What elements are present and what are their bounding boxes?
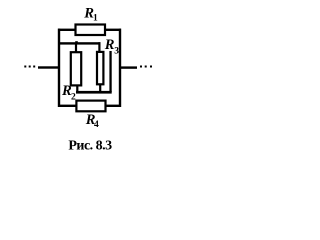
- wire: left rail: [58, 29, 60, 107]
- wire: bottom branch right segment: [107, 105, 122, 107]
- svg-text:3: 3: [114, 47, 119, 57]
- resistor R1: [76, 25, 106, 36]
- wire: top branch left segment: [58, 29, 75, 31]
- junction node on inner top wire: [75, 41, 78, 42]
- wire: inner top: [58, 42, 100, 44]
- resistor R3 (right vertical box): [97, 52, 103, 84]
- svg-text:1: 1: [93, 14, 98, 24]
- wire: left lead-in: [38, 66, 58, 68]
- wire: top branch right segment: [106, 29, 121, 31]
- resistor R4: [76, 101, 105, 112]
- left ellipsis dots: [24, 66, 26, 68]
- wire: right outer rail: [119, 29, 121, 107]
- svg-text:Рис. 8.3: Рис. 8.3: [68, 139, 112, 154]
- wire: R2 box bottom lead: [76, 86, 78, 92]
- wire: inner bottom: [76, 91, 112, 94]
- wire: R2 box top lead: [75, 44, 77, 52]
- svg-text:4: 4: [94, 120, 99, 130]
- right ellipsis dots: [140, 66, 142, 68]
- resistor R2 (left vertical box): [71, 52, 81, 85]
- wire: inner right rail: [109, 51, 111, 92]
- wire: corner down to R3 box lead: [98, 42, 100, 51]
- svg-text:2: 2: [71, 93, 76, 103]
- wire: right lead-out: [121, 66, 137, 68]
- wire: R3 box bottom lead: [99, 85, 101, 92]
- wire: bottom branch left segment: [58, 105, 76, 107]
- svg-text:R: R: [104, 37, 115, 53]
